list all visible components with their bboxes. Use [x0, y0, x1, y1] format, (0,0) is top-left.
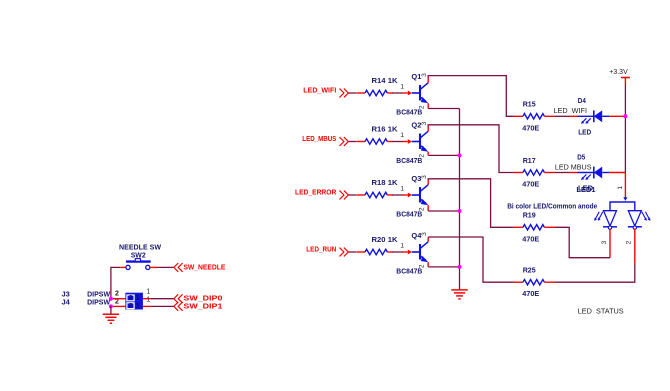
- wire LED1 pin2 stub: [634, 228, 636, 263]
- svg-text:BC847B: BC847B: [396, 108, 423, 117]
- ground (switches): [103, 314, 119, 323]
- svg-text:BC847B: BC847B: [396, 267, 423, 276]
- svg-text:3: 3: [421, 73, 428, 77]
- wire emitter stub: [427, 152, 429, 156]
- port LED_MBUS: [302, 136, 348, 146]
- switch SW2 push button: [120, 259, 157, 270]
- svg-text:R20 1K: R20 1K: [372, 235, 399, 244]
- svg-text:1: 1: [136, 295, 140, 302]
- svg-text:1: 1: [136, 302, 140, 309]
- svg-text:R14 1K: R14 1K: [372, 76, 399, 85]
- svg-text:1: 1: [400, 83, 404, 90]
- wire emitter stub: [427, 262, 429, 267]
- svg-text:R16 1K: R16 1K: [372, 125, 399, 134]
- svg-text:R19: R19: [523, 211, 536, 220]
- junction: [109, 304, 113, 308]
- wire: [349, 92, 357, 94]
- LED D5: [578, 167, 610, 180]
- wire D4 anode to +3.3V rail: [609, 115, 625, 117]
- wire R19 to LED1 pin3: [555, 227, 610, 257]
- wire emitter Q4: [428, 266, 459, 268]
- svg-text:SW2: SW2: [131, 251, 146, 260]
- transistor Q1 BC847B NPN: [403, 83, 429, 104]
- wire D5 anode to +3.3V rail: [609, 172, 625, 174]
- wire: [349, 141, 357, 143]
- port SW_DIP1: [174, 302, 223, 311]
- svg-text:3: 3: [421, 232, 428, 236]
- svg-text:LED STATUS: LED STATUS: [578, 307, 624, 316]
- wire R17 to D5: [555, 172, 570, 174]
- wire LED1 pin1 (common anode): [624, 173, 626, 199]
- wire: [349, 251, 357, 253]
- port LED_ERROR: [295, 190, 348, 200]
- svg-text:D5: D5: [577, 152, 585, 161]
- svg-text:J4: J4: [62, 298, 71, 307]
- svg-text:SW_DIP1: SW_DIP1: [183, 303, 222, 310]
- wire collector stub: [427, 237, 429, 242]
- wire emitter stub: [427, 103, 429, 108]
- wire collector stub: [427, 180, 429, 185]
- svg-text:LED_ERROR: LED_ERROR: [295, 190, 336, 197]
- resistor R20 1K: [356, 249, 392, 254]
- svg-text:2: 2: [129, 302, 133, 309]
- svg-text:R18 1K: R18 1K: [372, 178, 399, 187]
- wire SW2 to port: [157, 266, 173, 268]
- wire collector Q4: [428, 237, 514, 282]
- svg-text:1: 1: [146, 289, 150, 296]
- junction: [458, 209, 462, 213]
- svg-text:SW_NEEDLE: SW_NEEDLE: [183, 264, 225, 271]
- svg-text:470E: 470E: [522, 289, 539, 298]
- ground (emitters): [451, 290, 467, 299]
- wire emitter Q1: [428, 108, 459, 110]
- svg-text:Bi color LED/Common anode: Bi color LED/Common anode: [507, 203, 597, 210]
- svg-text:3: 3: [421, 121, 428, 125]
- svg-text:2: 2: [115, 290, 119, 297]
- svg-text:LED: LED: [578, 127, 592, 136]
- svg-text:LED WIFI: LED WIFI: [554, 108, 588, 115]
- svg-text:3: 3: [601, 240, 608, 244]
- resistor R18 1K: [356, 192, 392, 197]
- wire collector Q1: [428, 76, 514, 117]
- resistor R14 1K: [356, 90, 392, 95]
- svg-text:R17: R17: [523, 156, 536, 165]
- LED LED1 bi-color common-anode pair: [594, 197, 651, 229]
- wire: [392, 92, 403, 94]
- svg-text:1: 1: [400, 242, 404, 249]
- svg-text:BC847B: BC847B: [396, 156, 423, 165]
- power symbol +3.3V: [621, 78, 630, 86]
- port LED_RUN: [306, 247, 348, 257]
- wire emitter rail to ground: [459, 109, 461, 290]
- junction: [458, 265, 462, 269]
- svg-text:1: 1: [400, 185, 404, 192]
- junction: [109, 297, 113, 301]
- svg-text:LED MBUS: LED MBUS: [555, 165, 592, 172]
- svg-text:BC847B: BC847B: [396, 210, 423, 219]
- wire emitter stub: [427, 205, 429, 211]
- wire R15 to D4: [555, 115, 570, 117]
- wire collector stub: [427, 127, 429, 132]
- wire: [392, 194, 403, 196]
- svg-text:LED1: LED1: [576, 185, 595, 194]
- svg-text:+3.3V: +3.3V: [609, 69, 628, 76]
- svg-text:470E: 470E: [522, 180, 539, 189]
- resistor R15 470E: [514, 114, 555, 119]
- svg-text:470E: 470E: [522, 123, 539, 132]
- wire emitter Q3: [428, 210, 459, 212]
- transistor Q3 BC847B NPN: [403, 185, 429, 206]
- DIP switch body J3/J4: [113, 293, 150, 310]
- svg-text:LED_WIFI: LED_WIFI: [303, 88, 336, 95]
- resistor R25 470E: [514, 280, 555, 285]
- resistor R16 1K: [356, 139, 392, 144]
- wire LED1 pin3 stub: [609, 228, 611, 257]
- wire: [392, 141, 403, 143]
- svg-text:1: 1: [146, 297, 150, 304]
- svg-text:LED_RUN: LED_RUN: [306, 247, 336, 254]
- svg-text:3: 3: [421, 175, 428, 179]
- wire emitter Q2: [428, 154, 459, 156]
- resistor R19 470E: [514, 225, 555, 230]
- svg-text:2: 2: [129, 295, 133, 302]
- wire +3.3V rail: [624, 85, 626, 173]
- svg-text:SW_DIP0: SW_DIP0: [183, 296, 222, 303]
- junction: [623, 114, 627, 118]
- junction: [458, 153, 462, 157]
- svg-text:1: 1: [617, 186, 624, 190]
- svg-text:2: 2: [626, 240, 633, 244]
- wire J4 to port: [150, 305, 173, 307]
- wire to ground: [110, 306, 112, 314]
- svg-text:LED_MBUS: LED_MBUS: [302, 136, 336, 143]
- LED D4: [578, 110, 610, 123]
- svg-text:1: 1: [400, 132, 404, 139]
- svg-text:R15: R15: [523, 100, 536, 109]
- wire collector stub: [427, 78, 429, 83]
- svg-text:470E: 470E: [522, 234, 539, 243]
- wire SW2 to DIP rail: [111, 267, 120, 298]
- svg-text:R25: R25: [523, 266, 536, 275]
- wire collector Q2: [428, 125, 514, 173]
- svg-text:DIPSW: DIPSW: [87, 298, 111, 307]
- svg-text:D4: D4: [578, 96, 587, 105]
- port SW_NEEDLE: [174, 263, 226, 272]
- resistor R17 470E: [514, 170, 555, 175]
- transistor Q2 BC847B NPN: [403, 131, 429, 152]
- port LED_WIFI: [303, 88, 348, 98]
- wire: [349, 194, 357, 196]
- transistor Q4 BC847B NPN: [403, 242, 429, 263]
- wire collector Q3: [428, 179, 514, 228]
- wire J3 to port: [150, 298, 173, 300]
- wire: [392, 251, 403, 253]
- port SW_DIP0: [174, 294, 223, 303]
- wire R25 to LED1 pin2: [555, 263, 635, 282]
